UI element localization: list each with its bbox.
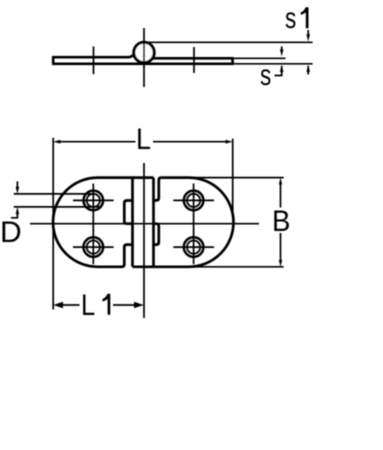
dimension L1 right arrowhead (134, 302, 144, 309)
dimension B top arrowhead (279, 178, 282, 185)
hole lower-left inner (87, 241, 100, 254)
dimension L1 line (60, 304, 135, 306)
body horizontal centerline (plan) (30, 223, 259, 225)
dimension L extension line right (232, 139, 234, 215)
extension line leaf top (s) (234, 57, 286, 59)
hole upper-right horizontal crosshair (173, 199, 214, 201)
right leaf (side view) (152, 58, 234, 64)
hole upper-left outer (84, 191, 104, 211)
right plate cut edge top (plan) (154, 178, 162, 201)
hole lower-left horizontal crosshair (73, 246, 114, 248)
hole upper-left inner (87, 194, 100, 207)
hole centerline tick left (side view) (93, 47, 95, 75)
dimension B bottom arrowhead (279, 260, 282, 267)
hole lower-right outer (184, 237, 204, 257)
dimension L left arrowhead (53, 140, 60, 144)
left leaf (side view) (52, 51, 234, 64)
dimension s up arrow (281, 66, 283, 72)
knuckle (side view) (134, 42, 154, 62)
hole upper-right inner (187, 194, 200, 207)
hole lower-left outer (84, 237, 104, 257)
svg-text:B: B (272, 205, 290, 238)
svg-text:L: L (81, 288, 95, 321)
svg-text:D: D (0, 216, 22, 249)
dimension s1 up arrow (307, 66, 309, 75)
dimension D down arrow (16, 181, 18, 187)
dimension D leader elbow (11, 214, 17, 218)
left holes vertical centerline (92, 184, 94, 265)
hole upper-right outer (184, 191, 204, 211)
barrel right edge (plan) (152, 178, 155, 267)
svg-text:s: s (260, 58, 271, 92)
dimension B extension line top (189, 177, 284, 179)
hole lower-right inner (187, 241, 200, 254)
extension line knuckle top (s1) (147, 41, 313, 43)
left plate outline with cut corner (plan) (53, 178, 153, 267)
dimension B extension line bottom (189, 266, 284, 268)
left plate cut edge middle (plan) (124, 201, 132, 224)
knuckle pin centerline (side view) (143, 28, 145, 87)
svg-text:s: s (285, 1, 296, 35)
hole upper-left horizontal crosshair (73, 199, 114, 201)
dimension B line (280, 184, 282, 261)
dimension L1 left arrowhead (53, 302, 63, 309)
dimension D lower leader line (14, 206, 100, 208)
dimension D up arrow (16, 212, 18, 214)
hole lower-right horizontal crosshair (173, 246, 214, 248)
svg-text:L: L (136, 123, 151, 157)
dimension L right arrowhead (226, 140, 233, 144)
right plate outline (plan) (133, 178, 234, 267)
hole centerline tick right (side view) (193, 47, 195, 73)
pin centerline (plan) (143, 163, 145, 318)
leader line for s (275, 72, 282, 76)
extension line leaf bottom (s/s1) (234, 63, 313, 65)
right plate cut edge middle (plan) (154, 224, 159, 245)
right holes vertical centerline (193, 184, 195, 265)
dimension L line (60, 141, 226, 143)
dimension D upper leader line (14, 193, 91, 195)
dimension s1 down arrow (307, 30, 309, 36)
dimension L extension line left (shared with L1) (52, 138, 54, 310)
dimension s down arrow (281, 46, 283, 51)
barrel left edge (plan) (131, 178, 134, 267)
